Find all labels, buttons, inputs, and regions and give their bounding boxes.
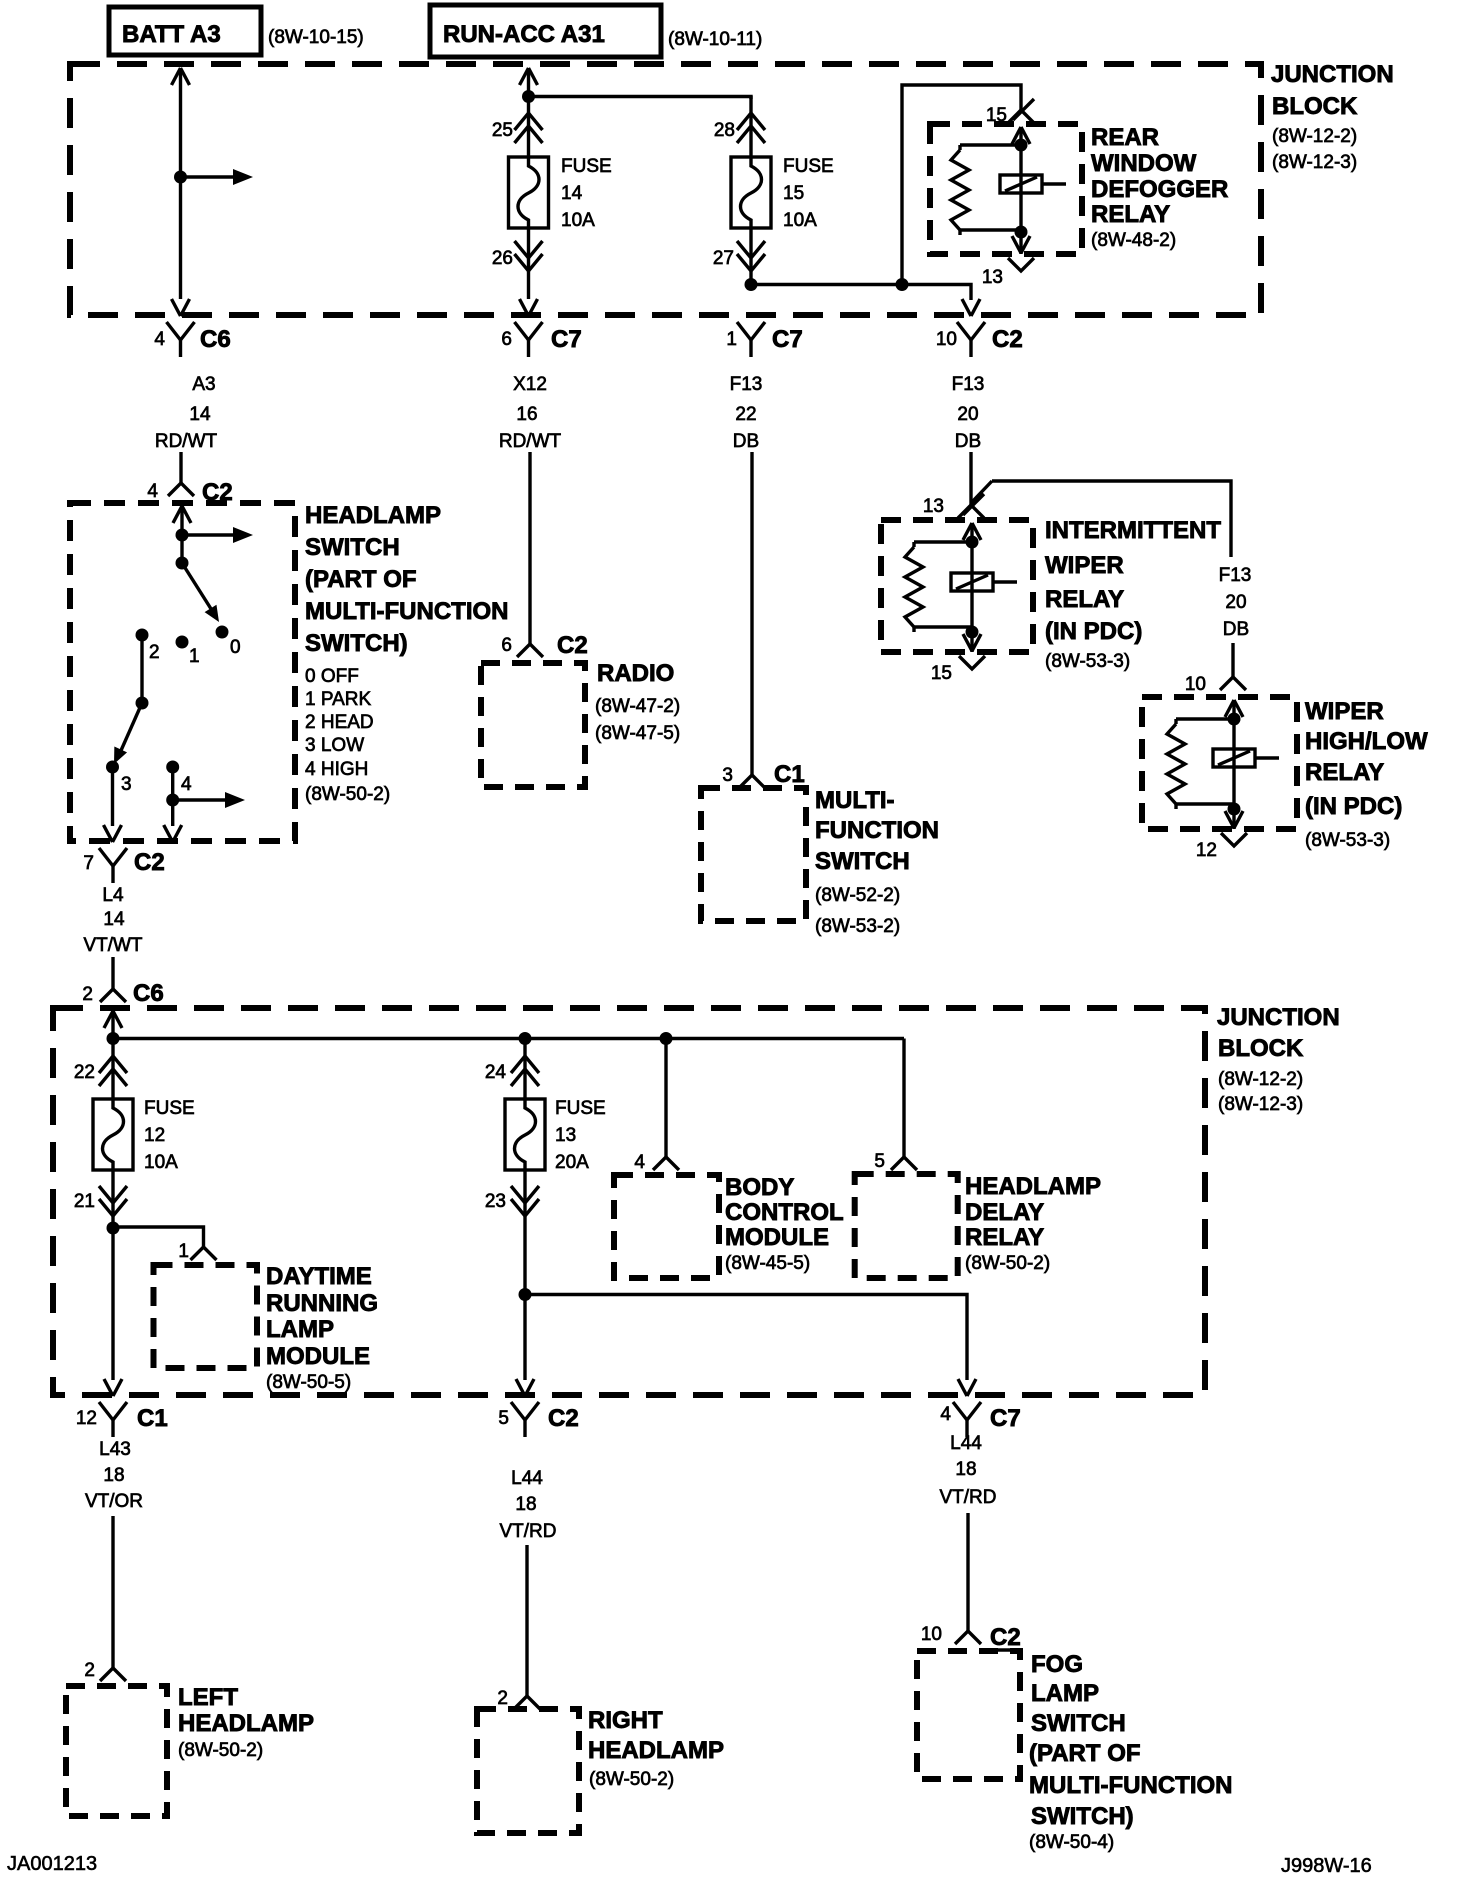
wire below fuse 13: [523, 1170, 526, 1295]
svg-text:C7: C7: [990, 1405, 1021, 1432]
svg-text:X12: X12: [513, 374, 547, 395]
svg-text:5: 5: [874, 1151, 885, 1172]
svg-text:15: 15: [931, 663, 952, 684]
wire into fuse 12: [111, 1038, 114, 1099]
svg-text:HEADLAMP: HEADLAMP: [588, 1737, 724, 1764]
svg-text:VT/RD: VT/RD: [940, 1487, 997, 1508]
junction dot RUN-ACC: [522, 90, 535, 103]
branch wire to C7 exit: [525, 1295, 976, 1397]
left headlamp dashed box: [66, 1686, 167, 1816]
connector bus 25: [492, 113, 543, 143]
wiper high/low relay dashed box: [1142, 697, 1297, 829]
svg-text:14: 14: [189, 404, 211, 425]
wire down to intermittent wiper relay: [969, 452, 972, 491]
wire label L43 18 VT/OR: [85, 1439, 143, 1512]
fuse 13: [505, 1099, 545, 1170]
fuse 14: [509, 157, 549, 228]
svg-text:L44: L44: [950, 1433, 982, 1454]
wiper high/low relay label: [1305, 698, 1428, 851]
fuse 13 value label: [555, 1098, 606, 1173]
svg-text:13: 13: [982, 267, 1003, 288]
svg-text:10: 10: [936, 329, 957, 350]
connector pin 4 (BCM): [634, 1143, 679, 1173]
svg-text:0 OFF: 0 OFF: [305, 666, 359, 687]
svg-text:(8W-50-5): (8W-50-5): [266, 1372, 351, 1393]
connector bus 23: [485, 1186, 539, 1216]
connector bus 28: [714, 113, 765, 143]
switch feed entry arrow: [173, 506, 191, 563]
svg-text:10A: 10A: [561, 210, 595, 231]
connector C2 pin 5: [498, 1402, 578, 1437]
wire label X12 16 RD/WT: [499, 374, 562, 452]
svg-text:(IN PDC): (IN PDC): [1305, 793, 1402, 820]
wire below fuse 15: [749, 228, 752, 285]
svg-text:3: 3: [121, 774, 132, 795]
rear window defogger relay dashed box: [930, 124, 1082, 254]
svg-text:C2: C2: [992, 326, 1023, 353]
radio label: [595, 660, 680, 744]
wire to junction block 2: [111, 957, 114, 975]
fuse 14 value label: [561, 156, 612, 231]
svg-text:1 PARK: 1 PARK: [305, 689, 372, 710]
svg-text:20: 20: [957, 404, 978, 425]
svg-text:BLOCK: BLOCK: [1218, 1035, 1304, 1062]
svg-text:A3: A3: [192, 374, 215, 395]
wire to C1 exit: [104, 1228, 122, 1396]
defogger relay resistor: [951, 145, 1021, 235]
junction dot on BATT wire: [174, 171, 187, 184]
svg-text:RELAY: RELAY: [1305, 759, 1384, 786]
defogger relay coil: [1000, 145, 1066, 232]
wire to radio: [528, 452, 531, 630]
connector C2 pin 7: [83, 848, 164, 883]
svg-text:(8W-12-2): (8W-12-2): [1218, 1069, 1303, 1090]
svg-text:DB: DB: [733, 431, 759, 452]
reference (8W-10-11): [668, 29, 762, 50]
svg-text:MODULE: MODULE: [725, 1224, 829, 1251]
svg-text:13: 13: [923, 496, 944, 517]
svg-text:FUSE: FUSE: [555, 1098, 606, 1119]
connector pin 2 (left headlamp): [84, 1654, 126, 1681]
junction dot BCM branch: [660, 1032, 673, 1045]
WHL entry arrow: [1225, 700, 1243, 719]
connector C6 pin 4: [154, 322, 230, 357]
svg-text:2 HEAD: 2 HEAD: [305, 712, 374, 733]
fuse 12: [93, 1099, 133, 1170]
svg-text:10A: 10A: [144, 1152, 178, 1173]
connector bus 22: [74, 1056, 127, 1086]
svg-text:JUNCTION: JUNCTION: [1271, 61, 1394, 88]
drawing number J998W-16: [1281, 1855, 1372, 1877]
svg-text:DAYTIME: DAYTIME: [266, 1263, 372, 1290]
connector bus 26: [492, 241, 543, 271]
svg-text:REAR: REAR: [1091, 124, 1159, 151]
svg-text:SWITCH: SWITCH: [1031, 1710, 1126, 1737]
svg-text:BATT A3: BATT A3: [122, 21, 221, 48]
switch feed dot with branch arrow: [176, 527, 254, 543]
svg-text:(8W-52-2): (8W-52-2): [815, 885, 900, 906]
svg-text:DB: DB: [955, 431, 981, 452]
wire to body control module: [664, 1038, 667, 1143]
right headlamp label: [588, 1707, 724, 1790]
connector pin 5 (headlamp delay relay): [874, 1143, 917, 1172]
svg-text:4: 4: [154, 329, 165, 350]
defogger relay entry arrow: [1012, 127, 1030, 145]
svg-text:10: 10: [1185, 674, 1206, 695]
svg-text:SWITCH): SWITCH): [305, 630, 408, 657]
svg-text:MODULE: MODULE: [266, 1343, 370, 1370]
svg-text:MULTI-FUNCTION: MULTI-FUNCTION: [1029, 1772, 1233, 1799]
entry arrow into junction block 2: [104, 1011, 122, 1038]
wire into fuse 15: [749, 96, 752, 157]
connector pin 2 (right headlamp): [497, 1682, 540, 1709]
svg-text:(PART OF: (PART OF: [1029, 1740, 1141, 1767]
switch wiper lever (positions): [176, 557, 220, 623]
svg-text:10A: 10A: [783, 210, 817, 231]
svg-text:(8W-50-2): (8W-50-2): [589, 1769, 674, 1790]
svg-text:LAMP: LAMP: [1031, 1680, 1099, 1707]
body control module dashed box: [614, 1175, 719, 1278]
svg-text:DB: DB: [1223, 619, 1249, 640]
svg-text:20A: 20A: [555, 1152, 589, 1173]
svg-text:C7: C7: [551, 326, 582, 353]
defogger relay bottom junction dot: [1015, 226, 1028, 239]
svg-text:6: 6: [501, 329, 512, 350]
junction block 1 label: [1271, 61, 1394, 173]
svg-text:WIPER: WIPER: [1305, 698, 1384, 725]
svg-text:(PART OF: (PART OF: [305, 566, 417, 593]
svg-text:JUNCTION: JUNCTION: [1217, 1004, 1340, 1031]
svg-text:SWITCH: SWITCH: [305, 534, 400, 561]
svg-text:(8W-10-15): (8W-10-15): [268, 27, 364, 48]
wire label A3 14 RD/WT: [155, 374, 218, 452]
connector pin 1 (DRL module): [178, 1233, 216, 1262]
svg-text:RD/WT: RD/WT: [499, 431, 562, 452]
junction dot fuse 13: [519, 1032, 532, 1045]
wire to headlamp switch connector: [179, 452, 182, 469]
branch wire to daytime running lamp module: [113, 1227, 204, 1233]
svg-text:(8W-45-5): (8W-45-5): [725, 1253, 810, 1274]
svg-text:FUSE: FUSE: [783, 156, 834, 177]
wire to multi-function switch: [750, 452, 753, 761]
junction block 2 label: [1217, 1004, 1340, 1115]
svg-text:3 LOW: 3 LOW: [305, 735, 364, 756]
headlamp switch dashed box: [70, 503, 295, 841]
svg-text:0: 0: [230, 637, 241, 658]
rear window defogger relay label: [1091, 124, 1228, 251]
svg-text:C7: C7: [772, 326, 803, 353]
WHL top junction dot: [1228, 713, 1241, 726]
svg-text:2: 2: [149, 642, 160, 663]
svg-text:MULTI-: MULTI-: [815, 787, 895, 814]
svg-text:FUSE: FUSE: [561, 156, 612, 177]
svg-text:HEADLAMP: HEADLAMP: [305, 502, 441, 529]
wire into fuse 13: [523, 1038, 526, 1099]
wire label F13 20 DB (wiper high/low): [1219, 565, 1252, 640]
svg-text:RD/WT: RD/WT: [155, 431, 218, 452]
svg-text:6: 6: [501, 635, 512, 656]
connector C7 pin 1: [726, 322, 802, 357]
svg-text:(8W-53-3): (8W-53-3): [1045, 651, 1130, 672]
wire: RUN-ACC A31 feed: [520, 68, 538, 99]
svg-text:WIPER: WIPER: [1045, 552, 1124, 579]
svg-text:RIGHT: RIGHT: [588, 1707, 663, 1734]
svg-text:20: 20: [1225, 592, 1246, 613]
svg-text:CONTROL: CONTROL: [725, 1199, 844, 1226]
svg-text:(8W-48-2): (8W-48-2): [1091, 230, 1176, 251]
svg-text:FOG: FOG: [1031, 1651, 1083, 1678]
svg-text:LEFT: LEFT: [178, 1684, 238, 1711]
wire to C2 exit: [751, 285, 980, 317]
svg-text:4: 4: [940, 1404, 951, 1425]
connector C7 pin 4: [940, 1402, 1020, 1437]
svg-text:L4: L4: [102, 885, 124, 906]
svg-text:F13: F13: [1219, 565, 1252, 586]
svg-text:(8W-47-5): (8W-47-5): [595, 723, 680, 744]
bus wire in junction block 2: [107, 1032, 905, 1045]
svg-text:24: 24: [485, 1062, 507, 1083]
IWR top junction dot: [966, 536, 979, 549]
svg-text:28: 28: [714, 120, 735, 141]
headlamp switch label: [305, 502, 509, 805]
svg-text:2: 2: [82, 984, 93, 1005]
wire label L44 18 VT/RD (fog lamp): [940, 1433, 997, 1508]
svg-text:VT/OR: VT/OR: [85, 1491, 143, 1512]
switch position dot 2: [136, 629, 160, 664]
headlamp delay relay label: [965, 1173, 1101, 1274]
IWR bottom junction dot: [966, 626, 979, 639]
svg-text:(8W-50-2): (8W-50-2): [965, 1253, 1050, 1274]
svg-text:J998W-16: J998W-16: [1281, 1855, 1372, 1877]
daytime running lamp module label: [266, 1263, 378, 1393]
svg-text:(8W-12-3): (8W-12-3): [1272, 152, 1357, 173]
fog lamp switch label: [1029, 1651, 1233, 1853]
IWR entry arrow: [963, 523, 981, 542]
svg-text:14: 14: [561, 183, 583, 204]
IWR exit arrow: [963, 632, 981, 652]
power feed box RUN-ACC A31: [430, 5, 661, 57]
svg-text:1: 1: [726, 329, 737, 350]
svg-text:C2: C2: [557, 632, 588, 659]
drawing number JA001213: [7, 1853, 97, 1875]
svg-text:VT/RD: VT/RD: [500, 1521, 557, 1542]
svg-text:BODY: BODY: [725, 1174, 794, 1201]
intermittent wiper relay label: [1045, 517, 1221, 672]
wire from position 3 to C2 exit: [104, 767, 122, 842]
svg-text:BLOCK: BLOCK: [1272, 93, 1358, 120]
wire: BATT A3 feed down through junction block: [172, 68, 190, 316]
switch branch 4 with arrow: [164, 767, 245, 842]
wire into wiper high/low relay: [1231, 643, 1234, 663]
svg-text:F13: F13: [952, 374, 985, 395]
wire to headlamp delay relay: [902, 1039, 905, 1144]
svg-text:(8W-12-3): (8W-12-3): [1218, 1094, 1303, 1115]
svg-text:LAMP: LAMP: [266, 1316, 334, 1343]
connector pin 12 (WHL): [1196, 833, 1247, 861]
svg-text:12: 12: [1196, 840, 1217, 861]
connector bus 24: [485, 1056, 539, 1086]
wire label L4 14 VT/WT: [83, 885, 142, 956]
svg-text:C1: C1: [137, 1405, 168, 1432]
svg-text:26: 26: [492, 248, 513, 269]
svg-text:12: 12: [76, 1408, 97, 1429]
wire below fuse 14: [520, 228, 538, 316]
IWR resistor: [905, 542, 972, 632]
fuse 15 value label: [783, 156, 834, 231]
wire to C2 exit: [516, 1295, 534, 1397]
wire label F13 20 DB: [952, 374, 985, 452]
svg-text:5: 5: [498, 1408, 509, 1429]
svg-text:INTERMITTENT: INTERMITTENT: [1045, 517, 1221, 544]
svg-text:4 HIGH: 4 HIGH: [305, 759, 368, 780]
connector pin 15 (defogger relay): [986, 96, 1034, 126]
right headlamp dashed box: [477, 1709, 579, 1833]
WHL resistor: [1167, 719, 1234, 809]
svg-text:C2: C2: [990, 1624, 1021, 1651]
wire below fuse 12: [111, 1170, 114, 1228]
svg-text:(8W-50-4): (8W-50-4): [1029, 1832, 1114, 1853]
svg-text:C2: C2: [548, 1405, 579, 1432]
wire to left headlamp: [111, 1516, 114, 1654]
junction dot below fuse 13: [519, 1288, 532, 1301]
svg-text:DEFOGGER: DEFOGGER: [1091, 176, 1228, 203]
power feed box BATT A3: [109, 7, 261, 55]
connector C2 pin 10 (fog lamp switch): [921, 1617, 1022, 1651]
svg-text:13: 13: [555, 1125, 576, 1146]
junction block 1 dashed border: [70, 64, 1261, 315]
svg-text:SWITCH: SWITCH: [815, 848, 910, 875]
connector C2 pin 4 (headlamp switch): [147, 469, 232, 506]
radio dashed box: [481, 663, 585, 787]
svg-text:L44: L44: [511, 1468, 543, 1489]
svg-text:27: 27: [713, 248, 734, 269]
connector bus 21: [74, 1186, 127, 1216]
svg-text:18: 18: [103, 1465, 124, 1486]
junction dot to DRL module: [107, 1222, 120, 1235]
svg-text:WINDOW: WINDOW: [1091, 150, 1197, 177]
svg-text:22: 22: [735, 404, 756, 425]
wire into fuse 14: [527, 96, 530, 157]
svg-text:RELAY: RELAY: [965, 1224, 1044, 1251]
switch position dot 3: [106, 761, 132, 796]
svg-text:RELAY: RELAY: [1045, 586, 1124, 613]
svg-text:2: 2: [84, 1660, 95, 1681]
daytime running lamp module dashed box: [154, 1265, 258, 1368]
connector C1 pin 12: [76, 1402, 168, 1437]
junction dot below fuse 15: [745, 278, 758, 291]
svg-text:(8W-50-2): (8W-50-2): [305, 784, 390, 805]
connector bus 27: [713, 241, 765, 271]
branch arrow to other circuits: [181, 169, 254, 185]
svg-text:HEADLAMP: HEADLAMP: [178, 1710, 314, 1737]
svg-text:(8W-53-2): (8W-53-2): [815, 916, 900, 937]
svg-text:4: 4: [147, 481, 158, 502]
svg-text:C6: C6: [200, 326, 231, 353]
svg-text:(8W-50-2): (8W-50-2): [178, 1740, 263, 1761]
svg-text:10: 10: [921, 1624, 942, 1645]
svg-text:FUNCTION: FUNCTION: [815, 817, 939, 844]
junction dot defogger feed: [896, 278, 909, 291]
left headlamp label: [178, 1684, 314, 1761]
svg-text:7: 7: [83, 853, 94, 874]
svg-text:22: 22: [74, 1062, 95, 1083]
svg-text:1: 1: [189, 646, 200, 667]
svg-text:FUSE: FUSE: [144, 1098, 195, 1119]
svg-text:14: 14: [103, 909, 125, 930]
junction block 2 dashed border: [53, 1008, 1205, 1395]
svg-text:4: 4: [634, 1152, 645, 1173]
svg-text:SWITCH): SWITCH): [1031, 1803, 1134, 1830]
fuse 12 value label: [144, 1098, 195, 1173]
svg-text:(8W-10-11): (8W-10-11): [668, 29, 762, 50]
connector C2 pin 10: [936, 322, 1023, 357]
wire label L44 18 VT/RD (right headlamp): [500, 1468, 557, 1542]
fuse 15: [731, 157, 771, 228]
svg-text:(8W-12-2): (8W-12-2): [1272, 126, 1357, 147]
svg-text:3: 3: [722, 765, 733, 786]
svg-text:23: 23: [485, 1191, 506, 1212]
svg-text:L43: L43: [99, 1439, 131, 1460]
WHL exit arrow: [1225, 809, 1243, 829]
switch position dot 1: [176, 636, 200, 668]
svg-text:1: 1: [178, 1241, 189, 1262]
switch position dot 4: [166, 761, 192, 796]
svg-text:F13: F13: [730, 374, 763, 395]
svg-text:(IN PDC): (IN PDC): [1045, 618, 1142, 645]
WHL coil: [1213, 719, 1279, 809]
switch position dot 0: [216, 626, 241, 659]
svg-text:HIGH/LOW: HIGH/LOW: [1305, 728, 1428, 755]
svg-text:21: 21: [74, 1191, 95, 1212]
wire to fog lamp switch: [966, 1513, 969, 1617]
WHL bottom junction dot: [1228, 803, 1241, 816]
svg-text:15: 15: [783, 183, 804, 204]
fog lamp switch dashed box: [917, 1651, 1020, 1779]
svg-text:C2: C2: [134, 849, 165, 876]
svg-text:RUN-ACC A31: RUN-ACC A31: [443, 21, 605, 48]
svg-text:JA001213: JA001213: [7, 1853, 97, 1875]
branch wire to wiper high/low relay: [971, 481, 1231, 557]
connector C1 pin 3 (multi-function switch): [722, 761, 804, 788]
svg-text:2: 2: [497, 1688, 508, 1709]
svg-text:RADIO: RADIO: [597, 660, 674, 687]
wire feeding defogger relay: [902, 85, 1021, 285]
multi-function switch label: [815, 787, 939, 937]
svg-text:12: 12: [144, 1125, 165, 1146]
connector C2 pin 6 (radio): [501, 630, 587, 659]
svg-text:16: 16: [516, 404, 537, 425]
svg-text:(8W-53-3): (8W-53-3): [1305, 830, 1390, 851]
intermittent wiper relay dashed box: [881, 520, 1033, 652]
svg-text:VT/WT: VT/WT: [83, 935, 142, 956]
svg-text:(8W-47-2): (8W-47-2): [595, 696, 680, 717]
body control module label: [725, 1174, 844, 1274]
connector C7 pin 6: [501, 322, 581, 357]
reference (8W-10-15): [268, 27, 364, 48]
svg-text:25: 25: [492, 120, 513, 141]
headlamp delay relay dashed box: [855, 1174, 958, 1278]
svg-text:C6: C6: [133, 980, 164, 1007]
bus wire to fuse 15: [529, 97, 752, 100]
svg-text:RUNNING: RUNNING: [266, 1290, 378, 1317]
svg-text:HEADLAMP: HEADLAMP: [965, 1173, 1101, 1200]
connector pin 13 (defogger relay): [982, 258, 1034, 288]
wire label F13 22 DB: [730, 374, 763, 452]
connector pin 13 (intermittent wiper relay): [923, 491, 984, 518]
svg-text:4: 4: [181, 774, 192, 795]
switch lower lever: [114, 635, 149, 764]
multi-function switch dashed box: [701, 788, 806, 921]
